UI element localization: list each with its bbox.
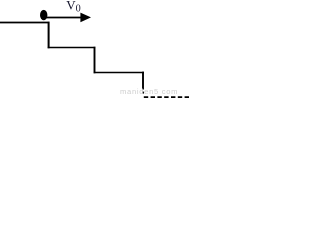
svg-text:maniden5 com: maniden5 com <box>120 87 178 96</box>
wire: left input lead <box>0 22 50 24</box>
wire: dash remnant below vertical drop 3 <box>142 92 144 94</box>
node A: junction dot <box>40 10 47 20</box>
wire: vertical drop 1 <box>48 22 50 49</box>
svg-text:0: 0 <box>76 4 81 15</box>
arrowhead of V0 arrow <box>80 13 91 23</box>
wire: dashed continuation line <box>144 96 189 98</box>
wire: vertical drop 3 <box>142 72 144 90</box>
wire: step 1 horizontal <box>48 47 96 49</box>
wire: V0 arrow shaft <box>45 17 83 19</box>
wire: step 2 horizontal <box>94 72 144 74</box>
wire: vertical drop 2 <box>94 47 96 74</box>
